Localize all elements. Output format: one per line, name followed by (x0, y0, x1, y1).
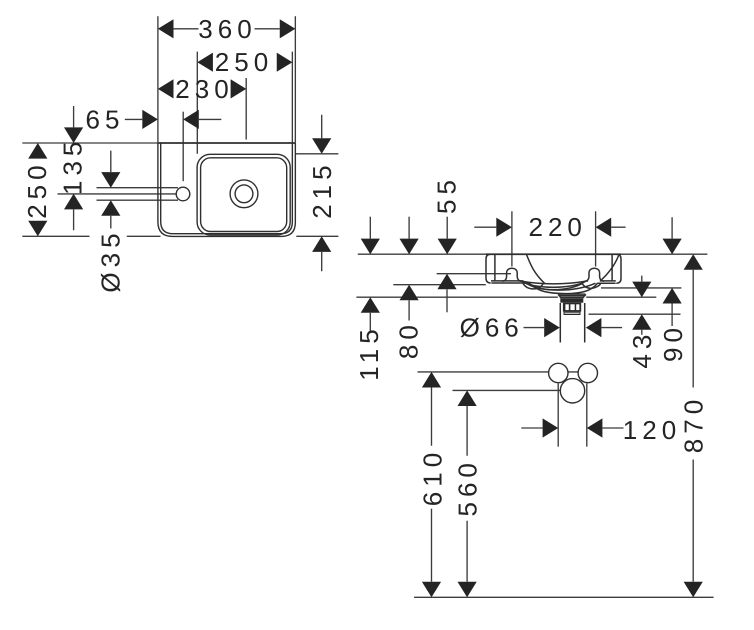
svg-text:215: 215 (307, 160, 337, 218)
svg-text:360: 360 (198, 14, 256, 44)
svg-text:610: 610 (418, 448, 448, 506)
svg-text:65: 65 (86, 104, 125, 134)
svg-text:230: 230 (175, 74, 233, 104)
svg-text:Ø35: Ø35 (96, 228, 126, 292)
svg-text:Ø66: Ø66 (460, 313, 524, 343)
svg-text:220: 220 (529, 212, 587, 242)
svg-text:43: 43 (627, 330, 657, 369)
svg-text:870: 870 (678, 395, 708, 453)
svg-text:135: 135 (58, 137, 88, 195)
svg-text:250: 250 (215, 47, 273, 77)
svg-text:80: 80 (394, 320, 424, 359)
svg-text:55: 55 (432, 175, 462, 214)
svg-text:250: 250 (22, 160, 52, 218)
svg-text:560: 560 (452, 458, 482, 516)
svg-text:90: 90 (658, 323, 688, 362)
svg-text:120: 120 (623, 415, 681, 445)
svg-text:115: 115 (354, 324, 384, 380)
